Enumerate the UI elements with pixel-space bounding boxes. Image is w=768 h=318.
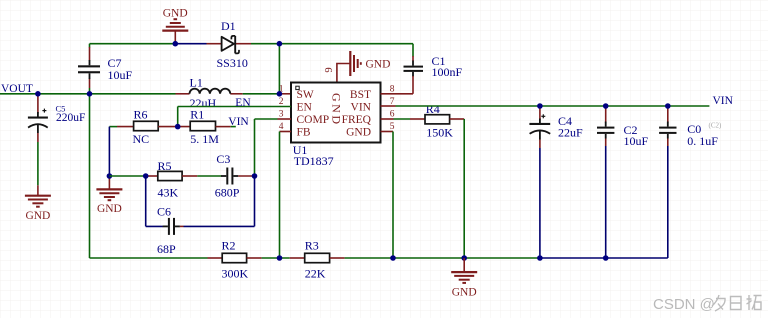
- svg-text:(C2): (C2): [709, 121, 723, 129]
- svg-text:100nF: 100nF: [432, 65, 463, 79]
- pin number 4: [279, 122, 284, 132]
- wire D1 anode pin: [207, 43, 222, 45]
- svg-text:GND: GND: [97, 203, 122, 215]
- label C4: [558, 114, 583, 140]
- ground GND top (flipped): [162, 8, 188, 44]
- resistor R6: [134, 121, 159, 130]
- svg-text:GND: GND: [163, 8, 188, 20]
- svg-text:VIN: VIN: [713, 95, 734, 107]
- label R6: [133, 107, 150, 146]
- wire R5 row left: [109, 175, 157, 177]
- wire top row navy segment (GND junction to D1 anode lead): [175, 43, 206, 45]
- label U1 TD1837: [293, 143, 334, 168]
- svg-text:680P: 680P: [215, 186, 240, 200]
- ground GND mid-left: [96, 176, 122, 215]
- node junction pin1/L1: [277, 91, 283, 97]
- svg-text:43K: 43K: [158, 186, 179, 200]
- svg-text:EN: EN: [297, 102, 313, 114]
- pin name SW: [297, 89, 314, 101]
- node junction FB/bottom row: [277, 255, 283, 261]
- svg-text:68P: 68P: [157, 242, 176, 256]
- diode D1: [222, 36, 239, 54]
- label C2: [624, 123, 649, 148]
- net label VOUT: [1, 83, 33, 95]
- label L1: [190, 75, 217, 110]
- capacitor C6: [163, 218, 180, 235]
- wire pin 5 to bottom row: [381, 132, 394, 259]
- label C5: [56, 103, 86, 124]
- svg-text:GND: GND: [25, 210, 50, 222]
- net label VIN right: [713, 95, 734, 107]
- pin number 5: [390, 122, 395, 132]
- node junction R6/R1/EN: [175, 124, 181, 130]
- svg-text:C3: C3: [216, 152, 230, 166]
- wire R5 to C3: [182, 175, 221, 177]
- label R2: [222, 238, 249, 280]
- svg-text:FREQ: FREQ: [342, 114, 372, 126]
- pin number 8: [390, 85, 395, 95]
- wire R6 to R1: [158, 126, 190, 128]
- label R5: [158, 159, 179, 200]
- svg-text:R6: R6: [134, 107, 148, 121]
- node junction C4/bottom: [537, 255, 543, 261]
- wire R3 left pin: [290, 257, 305, 259]
- pin name FREQ: [342, 114, 372, 126]
- wire VOUT row: [0, 93, 176, 95]
- capacitor C2: [597, 106, 614, 258]
- label C3: [215, 152, 240, 200]
- resistor R2: [222, 253, 246, 262]
- wire R2 right pin: [247, 257, 262, 259]
- wire pin 6 to R4: [381, 118, 426, 120]
- svg-text:3: 3: [279, 110, 284, 120]
- label C6: [157, 205, 176, 257]
- wire C1 bottom lead to pin 8: [412, 76, 414, 94]
- svg-text:R2: R2: [222, 238, 236, 252]
- svg-text:COMP: COMP: [297, 114, 330, 126]
- capacitor C0: [659, 106, 676, 258]
- pin number 7: [390, 97, 395, 107]
- svg-text:10uF: 10uF: [108, 68, 133, 82]
- svg-text:VOUT: VOUT: [1, 83, 33, 95]
- svg-text:NC: NC: [133, 132, 150, 146]
- resistor R3: [305, 253, 330, 262]
- svg-text:VIN: VIN: [351, 102, 372, 114]
- pin name FB: [297, 127, 311, 139]
- wire C7 bottom lead: [89, 79, 91, 94]
- label C0: [687, 121, 722, 148]
- pin name COMP: [297, 114, 330, 126]
- pin number 1: [279, 85, 284, 95]
- ground GND at pin 9 (rotated): [350, 51, 390, 76]
- op-amp U1 TD1837 IC body: [291, 83, 381, 143]
- svg-text:0. 1uF: 0. 1uF: [687, 134, 718, 148]
- wire COMP pin 3: [255, 119, 292, 176]
- svg-text:SS310: SS310: [217, 56, 248, 70]
- svg-text:2: 2: [279, 97, 284, 107]
- svg-text:150K: 150K: [426, 126, 453, 140]
- node junction R4/bottom: [461, 255, 467, 261]
- wire C6 loop right: [180, 176, 255, 226]
- wire left long vertical VOUT to bottom row: [89, 94, 91, 258]
- svg-text:9: 9: [324, 67, 335, 72]
- svg-text:D1: D1: [221, 19, 236, 33]
- svg-text:GND: GND: [346, 127, 371, 139]
- label R3: [305, 238, 326, 280]
- svg-text:C6: C6: [157, 205, 171, 219]
- svg-text:R4: R4: [426, 102, 440, 116]
- wire D1 cathode pin: [236, 43, 251, 45]
- node junction C6 branch: [143, 173, 149, 179]
- pin name BST: [350, 89, 371, 101]
- svg-text:TD1837: TD1837: [294, 154, 334, 168]
- wire C6 loop left vertical: [146, 176, 163, 226]
- node junction SW top: [277, 41, 283, 47]
- svg-text:R5: R5: [158, 159, 172, 173]
- watermark CSDN: [653, 295, 762, 313]
- resistor R4: [425, 115, 450, 124]
- wire L1 to pin1 junction: [243, 93, 280, 95]
- svg-text:10uF: 10uF: [624, 134, 649, 148]
- wire L1 left pin: [176, 93, 190, 95]
- capacitor C3: [221, 168, 238, 185]
- node junction pin5/bottom: [390, 255, 396, 261]
- wire R6 row left stub: [109, 126, 133, 128]
- pin number 6: [390, 110, 395, 120]
- wire R2 to R3: [262, 257, 290, 259]
- svg-text:300K: 300K: [222, 267, 249, 281]
- node junction C0/VIN: [665, 103, 671, 109]
- capacitor C7: [78, 60, 100, 79]
- svg-text:6: 6: [390, 110, 395, 120]
- wire top row left (C7 top to GND junction): [90, 43, 176, 45]
- svg-text:22uF: 22uF: [558, 126, 583, 140]
- pin number 9 (rotated): [324, 67, 335, 72]
- svg-text:GND: GND: [452, 286, 477, 298]
- wire pin 9: [337, 64, 350, 83]
- net label EN: [235, 97, 251, 109]
- svg-text:R1: R1: [190, 107, 204, 121]
- wire C3 right lead: [238, 175, 254, 177]
- node junction C2/bottom: [603, 255, 609, 261]
- node junction C7/VOUT: [87, 91, 93, 97]
- svg-text:EN: EN: [235, 97, 251, 109]
- label D1: [217, 19, 248, 70]
- svg-text:GND: GND: [329, 93, 343, 127]
- ground GND below C5: [25, 185, 51, 222]
- node junction top GND: [173, 41, 179, 47]
- wire R3 right pin: [330, 257, 345, 259]
- pin name EN: [297, 102, 313, 114]
- node junction C4/VIN: [537, 103, 543, 109]
- svg-text:BST: BST: [350, 89, 371, 101]
- wire EN row: [178, 107, 291, 127]
- wire top row right (D1 to C1 branch): [251, 43, 413, 45]
- pin name VIN: [351, 102, 372, 114]
- net label VIN (at R1): [228, 116, 249, 128]
- wire pin1 stub: [279, 93, 291, 95]
- resistor R5: [158, 171, 182, 180]
- svg-text:SW: SW: [297, 89, 314, 101]
- label C7: [108, 56, 133, 82]
- svg-text:GND: GND: [366, 59, 391, 71]
- svg-text:CSDN @: CSDN @: [653, 296, 715, 313]
- pin name GND (pin5): [346, 127, 371, 139]
- wire R4 right to ground: [450, 119, 465, 258]
- wire FB pin 4: [280, 132, 292, 259]
- label R4: [426, 102, 454, 140]
- wire R6 down to ground node: [108, 127, 110, 176]
- wire C5 to ground: [37, 142, 39, 185]
- svg-text:5. 1M: 5. 1M: [190, 132, 219, 146]
- svg-text:22K: 22K: [305, 267, 326, 281]
- pin number 3: [279, 110, 284, 120]
- wire C1 top lead: [412, 44, 414, 61]
- wire bottom row center: [345, 257, 540, 259]
- wire C7 top lead: [89, 44, 91, 61]
- node junction C2/VIN: [603, 103, 609, 109]
- svg-text:R3: R3: [305, 238, 319, 252]
- wire L1 right pin: [230, 93, 242, 95]
- node junction C5/VOUT: [35, 91, 41, 97]
- wire SW vertical (top row to pin 1): [278, 44, 280, 94]
- capacitor C5 (polarized): [28, 94, 48, 142]
- wire pin 7 VIN row: [381, 105, 710, 107]
- node junction C3/COMP: [252, 173, 258, 179]
- capacitor C4 (polarized): [529, 106, 550, 258]
- svg-text:L1: L1: [190, 75, 203, 89]
- svg-text:FB: FB: [297, 127, 311, 139]
- svg-text:VIN: VIN: [228, 116, 249, 128]
- resistor R1: [190, 121, 215, 130]
- wire bottom row green: [90, 257, 208, 259]
- node junction R6-down/R5 row: [107, 173, 113, 179]
- pin name GND rotated (pin9): [329, 93, 343, 127]
- inductor L1: [190, 89, 231, 94]
- pin number 2: [279, 97, 284, 107]
- wire R1 right lead: [216, 126, 236, 128]
- wire bottom row navy right: [540, 257, 668, 259]
- svg-text:220uF: 220uF: [56, 112, 85, 124]
- label R1: [190, 107, 219, 146]
- capacitor C1: [404, 61, 424, 77]
- ground GND bottom: [451, 258, 477, 298]
- wire R2 left pin: [208, 257, 223, 259]
- wire pin 8 stub to C1: [381, 93, 414, 95]
- label C1: [432, 54, 463, 79]
